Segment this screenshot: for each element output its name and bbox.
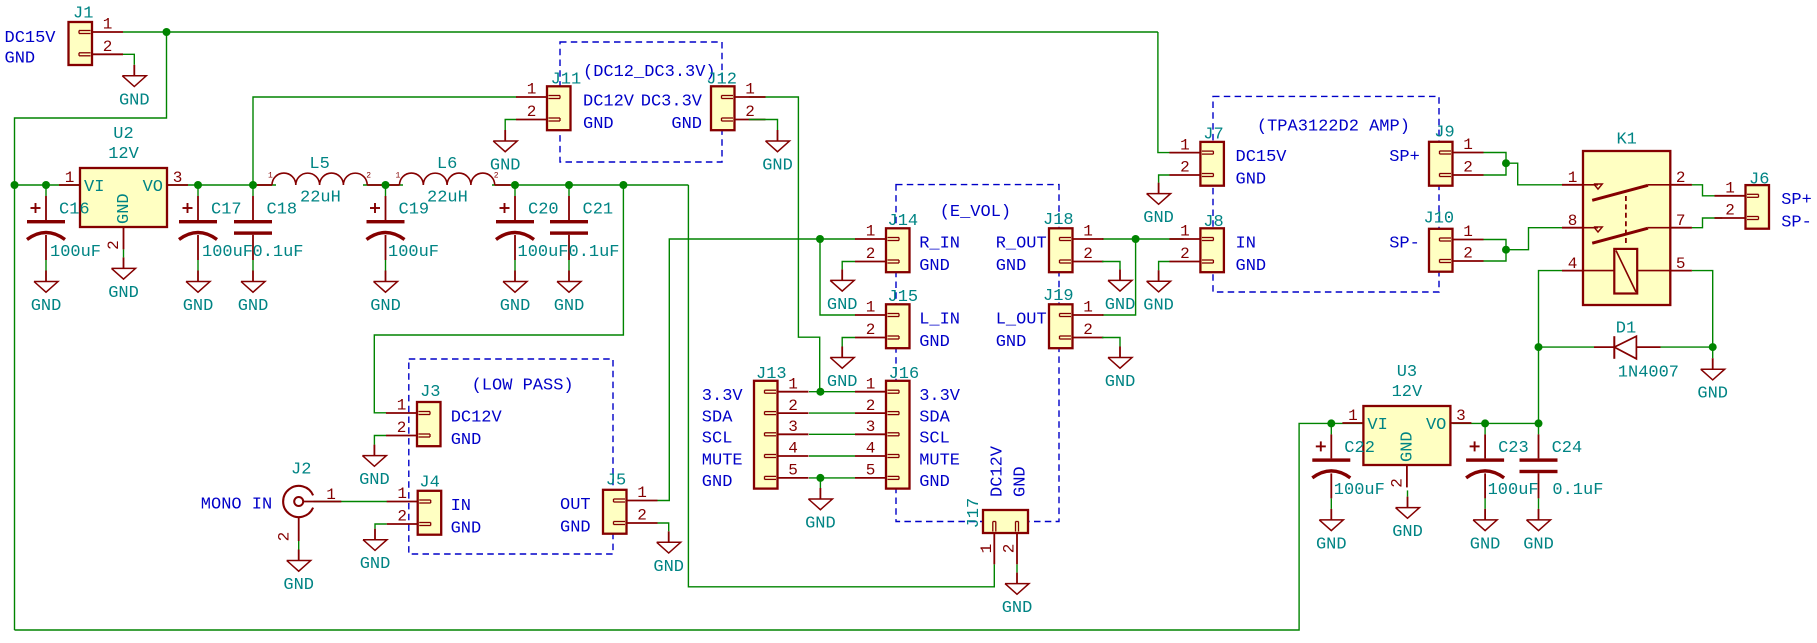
labels J14 pin names: [919, 234, 960, 275]
svg-text:J10: J10: [1424, 209, 1455, 228]
svg-text:MONO IN: MONO IN: [201, 495, 272, 514]
svg-text:DC3.3V: DC3.3V: [641, 92, 703, 111]
wire L5-C19 rail: [363, 184, 403, 186]
svg-text:2: 2: [397, 508, 407, 526]
svg-text:J2: J2: [291, 460, 311, 479]
wire DC15V feed down-left: [15, 32, 167, 630]
svg-text:VO: VO: [1426, 416, 1446, 435]
labels J4 pin names: [451, 497, 482, 539]
ground C19 gnd: [370, 271, 401, 317]
svg-text:1N4007: 1N4007: [1618, 364, 1679, 383]
svg-text:1: 1: [1568, 169, 1578, 187]
module outline TPA3122D2 AMP module: [1213, 96, 1439, 292]
capacitor C21 (0.1uF): [550, 185, 620, 271]
diode D1 (1N4007): [1594, 320, 1679, 383]
svg-text:SCL: SCL: [702, 430, 733, 449]
svg-text:0.1uF: 0.1uF: [569, 243, 620, 262]
ground C17 gnd: [183, 271, 214, 317]
junction J17 / J3 feed: [619, 181, 627, 189]
svg-text:GND: GND: [919, 473, 950, 492]
svg-text:2: 2: [103, 38, 113, 56]
svg-text:K1: K1: [1616, 131, 1636, 150]
connector J14: [855, 212, 918, 272]
wire 12V to J11: [253, 97, 517, 185]
capacitor C23 (polarized 100uF): [1466, 423, 1539, 509]
svg-text:2: 2: [1463, 245, 1473, 263]
svg-text:GND: GND: [119, 91, 150, 110]
svg-text:4: 4: [788, 440, 798, 458]
svg-text:2: 2: [1180, 159, 1190, 177]
svg-text:GND: GND: [108, 284, 139, 303]
junction D1 right: [1709, 343, 1717, 351]
connector J5: [603, 472, 658, 534]
wire J13-J16 row 2: [809, 412, 855, 414]
ground U3 pin2: [1392, 497, 1423, 542]
svg-text:C24: C24: [1552, 439, 1583, 458]
svg-text:GND: GND: [560, 518, 591, 537]
svg-text:1: 1: [397, 397, 407, 415]
svg-text:L_IN: L_IN: [919, 310, 960, 329]
svg-text:(TPA3122D2 AMP): (TPA3122D2 AMP): [1257, 118, 1410, 137]
labels J12 pin names: [641, 92, 703, 134]
module outline DC12_DC3.3V module: [560, 42, 722, 162]
ground J4 pin2: [360, 529, 391, 575]
svg-text:3.3V: 3.3V: [702, 387, 744, 406]
svg-text:C18: C18: [267, 201, 298, 220]
junction C16: [42, 181, 50, 189]
svg-text:2: 2: [1083, 245, 1093, 263]
wire J18 pin2 to gnd: [1102, 262, 1120, 270]
ground C23 gnd: [1470, 509, 1501, 555]
svg-text:MUTE: MUTE: [702, 451, 743, 470]
connector J6: [1715, 170, 1770, 228]
capacitor C18 (0.1uF): [234, 185, 304, 271]
svg-text:1: 1: [1180, 136, 1190, 154]
wire D1 anode link: [1539, 346, 1595, 348]
svg-text:2: 2: [397, 419, 407, 437]
wire J19 pin2 to gnd: [1102, 338, 1120, 347]
svg-text:J19: J19: [1043, 287, 1074, 306]
capacitor C19 (polarized 100uF): [367, 185, 440, 271]
wire J12 3V3 to J13: [749, 97, 820, 392]
svg-text:C17: C17: [211, 201, 242, 220]
svg-text:MUTE: MUTE: [919, 451, 960, 470]
junction 3.3V row1: [816, 388, 824, 396]
labels J1 nets DC15V GND: [5, 29, 57, 68]
junction R_IN / L_IN: [816, 235, 824, 243]
capacitor C24 (0.1uF): [1520, 423, 1604, 509]
ground J18 pin2: [1105, 269, 1136, 315]
labels J16 pin names: [919, 387, 961, 492]
svg-text:J7: J7: [1203, 125, 1223, 144]
connector J12: [706, 70, 765, 130]
audio jack J2 (MONO IN): [275, 460, 341, 549]
svg-text:R_IN: R_IN: [919, 234, 960, 253]
junction D1 left: [1535, 343, 1543, 351]
svg-text:12V: 12V: [1392, 383, 1423, 402]
svg-text:J11: J11: [551, 70, 582, 89]
svg-text:1: 1: [1463, 136, 1473, 154]
wire J4 pin2 to gnd: [375, 524, 387, 529]
svg-text:GND: GND: [451, 431, 482, 450]
svg-text:J8: J8: [1203, 213, 1223, 232]
svg-text:C16: C16: [59, 201, 90, 220]
svg-text:2: 2: [275, 532, 293, 542]
svg-text:GND: GND: [1236, 257, 1267, 276]
junction C24: [1535, 419, 1543, 427]
svg-text:8: 8: [1568, 212, 1578, 230]
svg-text:2: 2: [866, 397, 876, 415]
svg-text:1: 1: [1083, 299, 1093, 317]
svg-text:VI: VI: [1367, 416, 1387, 435]
svg-text:12V: 12V: [108, 145, 139, 164]
svg-text:DC12V: DC12V: [451, 408, 503, 427]
junction J10 pins: [1502, 246, 1510, 254]
svg-text:GND: GND: [5, 50, 36, 69]
regulator U2 (12V): [59, 125, 188, 250]
regulator U3 (12V): [1342, 363, 1471, 488]
junction C17: [194, 181, 202, 189]
svg-text:C20: C20: [528, 201, 559, 220]
svg-text:J18: J18: [1043, 211, 1074, 230]
wire J8 pin2 to gnd: [1159, 262, 1170, 271]
svg-text:1: 1: [866, 375, 876, 393]
connector J18: [1043, 211, 1104, 272]
svg-text:VI: VI: [84, 178, 104, 197]
svg-text:1: 1: [978, 544, 996, 554]
svg-text:J14: J14: [888, 212, 919, 231]
svg-text:1: 1: [396, 172, 401, 181]
svg-text:GND: GND: [1002, 599, 1033, 618]
connector J7: [1169, 125, 1224, 185]
svg-text:1: 1: [1348, 407, 1358, 425]
capacitor C17 (polarized 100uF): [179, 185, 253, 271]
svg-text:J17: J17: [965, 498, 984, 529]
ground C21 gnd: [554, 271, 585, 317]
svg-text:3: 3: [788, 418, 798, 436]
wire J12 pin2 to gnd: [749, 120, 778, 131]
junction C18 / J11 feed: [249, 181, 257, 189]
wire rail to J17 drop: [688, 185, 994, 587]
wire J10 to K1 pin8: [1506, 228, 1562, 250]
svg-text:3: 3: [866, 418, 876, 436]
capacitor C16 (polarized 100uF): [27, 185, 101, 271]
svg-text:GND: GND: [827, 296, 858, 315]
wire J17 pin2 gnd stub: [1016, 564, 1018, 572]
svg-text:3.3V: 3.3V: [919, 387, 961, 406]
svg-text:GND: GND: [1105, 296, 1136, 315]
junction C21: [565, 181, 573, 189]
svg-text:D1: D1: [1616, 320, 1636, 339]
ground J7 pin2: [1143, 183, 1174, 229]
svg-text:2: 2: [1463, 159, 1473, 177]
junction DC15V tap: [163, 28, 171, 36]
junction 15V left rail: [11, 181, 19, 189]
labels J11 pin names: [583, 92, 635, 134]
ground J13 J16 pin5: [805, 488, 836, 534]
svg-text:GND: GND: [1011, 466, 1030, 497]
svg-text:GND: GND: [183, 297, 214, 316]
svg-text:(DC12_DC3.3V): (DC12_DC3.3V): [583, 63, 716, 82]
svg-text:J1: J1: [73, 4, 93, 23]
connector J1: [69, 4, 124, 65]
svg-text:3: 3: [173, 169, 183, 187]
ground J19 pin2: [1105, 347, 1136, 393]
svg-text:GND: GND: [1105, 373, 1136, 392]
svg-text:SP+: SP+: [1781, 191, 1812, 210]
wire J10 pin1 link: [1483, 240, 1506, 250]
svg-text:2: 2: [1725, 202, 1735, 220]
svg-text:2: 2: [105, 240, 123, 250]
labels J7 pin names: [1236, 148, 1288, 189]
wire 12V to LOWPASS J3: [374, 185, 623, 413]
wire J7 pin2 to gnd: [1159, 175, 1170, 183]
ground C22 gnd: [1316, 509, 1347, 555]
wire U2 VO rail: [167, 184, 276, 186]
svg-text:J5: J5: [606, 472, 626, 491]
labels J13 pin names: [702, 387, 744, 492]
module outline E_VOL module: [896, 185, 1059, 522]
wire J10 pin2 link: [1483, 250, 1506, 261]
svg-text:1: 1: [1725, 180, 1735, 198]
svg-text:OUT: OUT: [560, 496, 591, 515]
connector J3: [386, 383, 441, 446]
svg-text:C22: C22: [1344, 439, 1375, 458]
svg-text:5: 5: [1676, 255, 1686, 273]
svg-text:GND: GND: [238, 297, 269, 316]
wire K1 pin5 to D1 right: [1692, 271, 1713, 348]
connector J11: [516, 70, 581, 130]
ground K1 pin5 / D1: [1697, 358, 1728, 404]
svg-text:GND: GND: [1236, 170, 1267, 189]
svg-text:J4: J4: [419, 474, 439, 493]
svg-text:GND: GND: [996, 257, 1027, 276]
connector J17: [965, 498, 1028, 565]
svg-text:3: 3: [1456, 407, 1466, 425]
wire K1 pin7 to J6 pin2: [1692, 218, 1723, 228]
svg-text:2: 2: [1001, 544, 1019, 554]
svg-text:DC12V: DC12V: [583, 92, 635, 111]
labels J10 SP-: [1389, 234, 1420, 253]
svg-text:2: 2: [745, 103, 755, 121]
svg-text:J3: J3: [420, 383, 440, 402]
wire J14 pin2 to gnd: [842, 262, 855, 270]
wire U3 pin2 to gnd: [1407, 490, 1409, 496]
labels J17 pin names: [989, 445, 1031, 497]
svg-text:L6: L6: [437, 155, 457, 174]
wire J5 pin2 to gnd: [658, 523, 669, 531]
wire D1 cathode link: [1661, 346, 1713, 348]
svg-text:J6: J6: [1749, 170, 1769, 189]
svg-text:2: 2: [866, 321, 876, 339]
connector J4: [387, 474, 442, 535]
labels J18 pin names: [996, 234, 1047, 275]
svg-text:SP-: SP-: [1781, 213, 1812, 232]
svg-text:2: 2: [366, 172, 371, 181]
svg-text:SDA: SDA: [919, 408, 950, 427]
svg-text:GND: GND: [370, 297, 401, 316]
wire R_OUT join L_OUT: [1102, 239, 1136, 315]
svg-text:GND: GND: [359, 471, 390, 490]
svg-text:2: 2: [527, 103, 537, 121]
labels J3 pin names: [451, 408, 503, 450]
connector J8: [1169, 213, 1224, 272]
ground J11 pin2: [490, 130, 521, 176]
svg-text:J16: J16: [889, 365, 920, 384]
capacitor C20 (polarized 100uF): [496, 185, 569, 271]
svg-text:2: 2: [637, 507, 647, 525]
wire L6 out rail: [492, 184, 688, 186]
svg-text:GND: GND: [360, 555, 391, 574]
wire J13-J16 row 3: [809, 433, 855, 435]
svg-text:100uF: 100uF: [1334, 481, 1385, 500]
svg-text:R_OUT: R_OUT: [996, 234, 1047, 253]
svg-text:100uF: 100uF: [1488, 481, 1539, 500]
junction C19: [382, 181, 390, 189]
wire J13-J16 row 1: [809, 391, 855, 393]
wire DC15V to J7: [1158, 32, 1170, 153]
junction C22 / U3 VI: [1327, 419, 1335, 427]
inductor L6 (22uH): [384, 155, 511, 208]
connector J19: [1043, 287, 1104, 348]
svg-text:1: 1: [866, 223, 876, 241]
ground J15 pin2: [827, 347, 858, 393]
svg-text:4: 4: [866, 440, 876, 458]
svg-text:2: 2: [788, 397, 798, 415]
wire J5 OUT up to R_IN: [658, 239, 856, 501]
svg-text:IN: IN: [451, 497, 471, 516]
ground C16 gnd: [31, 271, 62, 317]
labels J19 pin names: [996, 310, 1047, 352]
wire MONO jack to J4: [314, 501, 387, 503]
labels J15 pin names: [919, 310, 960, 352]
svg-text:2: 2: [1676, 169, 1686, 187]
svg-text:GND: GND: [1398, 431, 1417, 462]
svg-text:1: 1: [866, 299, 876, 317]
svg-text:GND: GND: [1523, 535, 1554, 554]
ground J17 pin2: [1002, 573, 1033, 619]
svg-text:100uF: 100uF: [50, 243, 101, 262]
labels J6 pin names: [1781, 191, 1812, 232]
labels J5 pin names: [560, 496, 591, 538]
svg-text:GND: GND: [583, 115, 614, 134]
svg-text:GND: GND: [1697, 385, 1728, 404]
wire K1 pin4 to D1/C24: [1539, 271, 1563, 424]
svg-text:VO: VO: [143, 178, 163, 197]
svg-text:GND: GND: [283, 576, 314, 595]
wire D1 gnd stub: [1712, 347, 1714, 358]
wire 15V rail to U2 VI: [15, 184, 81, 186]
svg-text:1: 1: [527, 81, 537, 99]
svg-text:7: 7: [1676, 212, 1686, 230]
svg-text:22uH: 22uH: [300, 189, 341, 208]
ground J14 pin2: [827, 269, 858, 315]
svg-text:C21: C21: [583, 201, 614, 220]
svg-text:1: 1: [745, 81, 755, 99]
wire U3 VO rail: [1453, 422, 1539, 424]
wire J13-J16 row 4: [809, 455, 855, 457]
connector J9: [1429, 124, 1484, 186]
svg-text:2: 2: [1180, 245, 1190, 263]
junction J9 pins: [1502, 159, 1510, 167]
wire J3 pin2 to gnd: [374, 436, 386, 445]
wire R_OUT to J8 IN: [1102, 238, 1184, 240]
svg-text:DC15V: DC15V: [1236, 148, 1288, 167]
svg-text:SDA: SDA: [702, 408, 733, 427]
ground C24 gnd: [1523, 509, 1554, 555]
svg-text:GND: GND: [919, 257, 950, 276]
svg-text:GND: GND: [490, 157, 521, 176]
wire DC15V top rail: [123, 31, 1158, 33]
svg-text:1: 1: [1083, 223, 1093, 241]
svg-text:4: 4: [1568, 255, 1578, 273]
svg-text:2: 2: [866, 245, 876, 263]
junction GND row5: [816, 474, 824, 482]
wire J1 pin2 to gnd: [123, 54, 134, 65]
svg-text:5: 5: [866, 462, 876, 480]
ground J5 pin2: [653, 531, 684, 577]
svg-text:DC15V: DC15V: [5, 29, 57, 48]
svg-text:GND: GND: [827, 373, 858, 392]
svg-text:100uF: 100uF: [388, 243, 439, 262]
wire J9 pin1 link: [1483, 153, 1506, 164]
svg-text:1: 1: [268, 172, 273, 181]
wire J15 pin2 to gnd: [842, 338, 855, 347]
svg-text:SCL: SCL: [919, 430, 950, 449]
ground J1 pin2: [119, 65, 150, 111]
svg-text:(LOW PASS): (LOW PASS): [472, 377, 574, 396]
svg-text:GND: GND: [996, 333, 1027, 352]
svg-text:J12: J12: [706, 70, 737, 89]
junction C20: [511, 181, 519, 189]
svg-text:22uH: 22uH: [427, 189, 468, 208]
svg-text:GND: GND: [1316, 535, 1347, 554]
svg-text:U2: U2: [113, 125, 133, 144]
inductor L5 (22uH): [256, 155, 383, 208]
label MONO IN: [201, 495, 272, 514]
svg-text:GND: GND: [919, 333, 950, 352]
svg-text:C23: C23: [1498, 439, 1529, 458]
wire J9 to K1 pin1: [1506, 163, 1562, 185]
capacitor C22 (polarized 100uF): [1312, 423, 1385, 509]
connector J13: [754, 365, 809, 489]
svg-text:1: 1: [326, 486, 336, 504]
svg-text:1: 1: [1463, 223, 1473, 241]
svg-text:5: 5: [788, 462, 798, 480]
svg-text:U3: U3: [1397, 363, 1417, 382]
wire U2 pin2 to gnd: [123, 249, 125, 257]
svg-text:1: 1: [65, 169, 75, 187]
wire K1 pin2 to J6 pin1: [1692, 185, 1723, 196]
svg-text:SP+: SP+: [1389, 148, 1420, 167]
ground J12 pin2: [762, 130, 793, 176]
svg-text:GND: GND: [762, 157, 793, 176]
svg-text:GND: GND: [1470, 535, 1501, 554]
svg-text:1: 1: [637, 484, 647, 502]
labels J9 SP+: [1389, 148, 1420, 167]
svg-text:1: 1: [788, 375, 798, 393]
svg-text:GND: GND: [115, 193, 134, 224]
svg-text:GND: GND: [1143, 209, 1174, 228]
svg-text:GND: GND: [500, 297, 531, 316]
svg-text:L5: L5: [309, 155, 329, 174]
wire J13-J16 row 5: [809, 477, 855, 479]
svg-text:100uF: 100uF: [518, 243, 569, 262]
svg-text:IN: IN: [1236, 234, 1256, 253]
labels J8 pin names: [1236, 234, 1267, 275]
relay K1: [1562, 131, 1692, 305]
module outline LOW PASS module: [409, 359, 613, 554]
